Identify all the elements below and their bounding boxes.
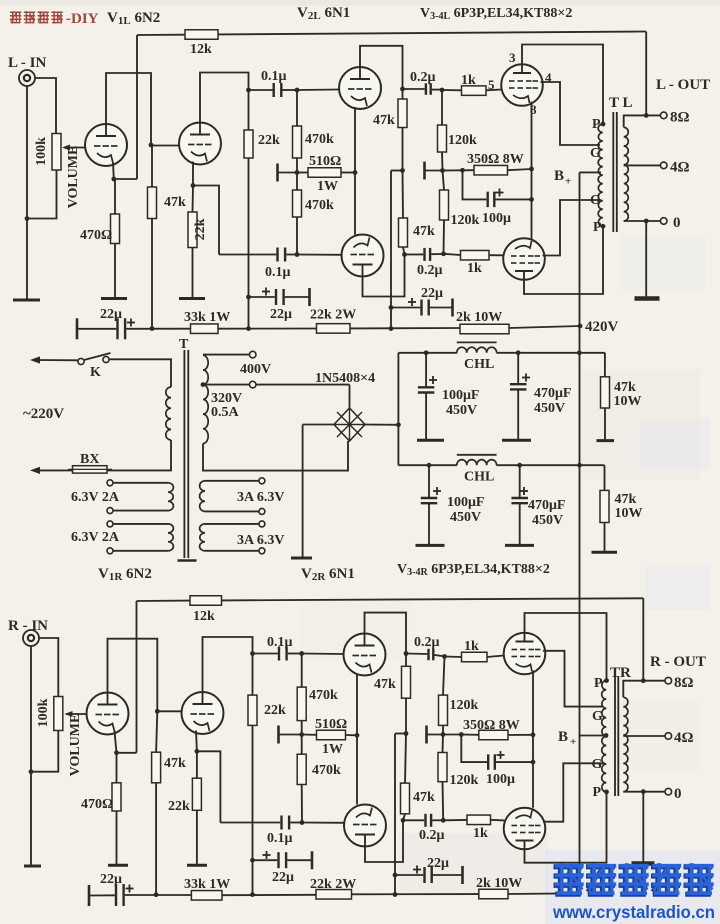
resistor 47k plate lower R bbox=[401, 734, 410, 821]
label 450V top1 bbox=[446, 403, 477, 418]
resistor 22k 2W bbox=[317, 324, 351, 334]
wire V4R screen to G bbox=[543, 763, 604, 821]
wire V1R-a cathode bbox=[115, 731, 117, 753]
svg-text:0.2μ: 0.2μ bbox=[414, 635, 440, 650]
label 3A 6.3V #2 bbox=[237, 533, 284, 548]
junction cathodes top bbox=[529, 167, 534, 172]
label 100uF top bbox=[442, 388, 480, 403]
terminal bar 510 row bbox=[276, 164, 279, 182]
resistor 47k V1R load bbox=[152, 711, 161, 894]
wire bar to 120k mid R bbox=[427, 734, 444, 736]
wire B+ vertical bbox=[579, 172, 581, 894]
wire V1R-a plate riser bbox=[108, 639, 158, 712]
junction feedback 8ohm bbox=[644, 113, 649, 118]
junction 510 node bbox=[295, 170, 300, 175]
capacitor 22u bias R bbox=[395, 866, 463, 884]
label 470k upper R bbox=[309, 688, 338, 703]
svg-text:350Ω 8W: 350Ω 8W bbox=[463, 718, 520, 733]
transformer T secondary 320V bbox=[203, 355, 208, 443]
junction 510 cathode line bbox=[353, 170, 358, 175]
label VOLUME R (rotated) bbox=[68, 714, 83, 777]
transformer TL secondary bbox=[624, 127, 629, 221]
terminal 8ohm bbox=[660, 112, 667, 119]
label TL bbox=[609, 95, 633, 111]
label 22k 2W R bbox=[310, 877, 356, 892]
svg-text:22k: 22k bbox=[258, 133, 280, 148]
svg-text:1N5408×4: 1N5408×4 bbox=[315, 371, 375, 386]
wire B+ center tap R bbox=[580, 735, 605, 737]
svg-text:510Ω: 510Ω bbox=[309, 154, 341, 169]
label 22k 2W bbox=[310, 308, 356, 323]
ground 470ohm R bbox=[108, 864, 128, 867]
svg-text:510Ω: 510Ω bbox=[315, 717, 347, 732]
junction bias 22u bbox=[389, 305, 394, 310]
switch K bbox=[78, 353, 111, 365]
label 0.2u upper R bbox=[414, 635, 440, 650]
tube V1L-a triode bbox=[85, 124, 127, 166]
label R-OUT bbox=[650, 654, 706, 670]
terminal bar 510 row R bbox=[277, 726, 280, 744]
svg-text:V2R 6N1: V2R 6N1 bbox=[301, 566, 355, 583]
junction B+ lower rail bbox=[577, 463, 582, 468]
resistor 470k upper R bbox=[297, 654, 306, 735]
wire V3R screen to G bbox=[543, 651, 604, 707]
label 33k 1W bbox=[184, 310, 230, 325]
wire V1L-b cathode bbox=[192, 162, 194, 186]
junction P bottom bbox=[601, 224, 606, 229]
wire jog to bias line R bbox=[395, 733, 406, 735]
svg-text:6.3V 2A: 6.3V 2A bbox=[71, 530, 120, 545]
resistor 470k lower R bbox=[297, 735, 306, 823]
label 0.1u lower bbox=[265, 265, 291, 280]
svg-text:10W: 10W bbox=[615, 506, 643, 521]
svg-text:P: P bbox=[593, 220, 602, 235]
label 1W R bbox=[322, 742, 343, 757]
label 2k 10W R bbox=[476, 876, 522, 891]
tube V1R-b triode bbox=[182, 692, 224, 734]
tube V4L pentode (inverted) bbox=[503, 238, 545, 280]
svg-text:450V: 450V bbox=[534, 401, 565, 416]
junction 47k rail R bbox=[154, 892, 159, 897]
junction P top R bbox=[604, 678, 609, 683]
wire bridge AC2 bbox=[303, 424, 334, 426]
resistor 1k lower R bbox=[443, 815, 504, 825]
svg-text:100μF: 100μF bbox=[442, 388, 480, 403]
wire filter rail top bbox=[398, 352, 605, 354]
svg-text:120k: 120k bbox=[451, 213, 480, 228]
svg-text:G: G bbox=[590, 146, 601, 161]
capacitor 0.1u upper R bbox=[253, 647, 302, 661]
wire V4R plate to P bbox=[525, 792, 607, 863]
resistor 470k lower bbox=[293, 173, 302, 255]
label 10W top bbox=[614, 394, 642, 409]
rectifier bridge 1N5408x4 bbox=[334, 408, 365, 441]
transformer TR primary bbox=[602, 681, 607, 792]
junction V2L-b plate node bbox=[402, 252, 407, 257]
wire secondary 4ohm bbox=[624, 164, 661, 166]
wire V3L screen to G bbox=[541, 82, 601, 145]
wire secondary 0 R bbox=[623, 791, 665, 793]
junction 47k mid node R bbox=[404, 731, 409, 736]
label 1k upper R bbox=[464, 639, 479, 654]
label 47k lower bbox=[615, 492, 637, 507]
svg-text:400V: 400V bbox=[240, 362, 271, 377]
label 510ohm R bbox=[315, 717, 347, 732]
resistor 2k 10W R bbox=[479, 889, 508, 899]
svg-text:450V: 450V bbox=[446, 403, 477, 418]
transformer TL primary bbox=[598, 124, 603, 226]
svg-text:1k: 1k bbox=[473, 826, 488, 841]
svg-text:8Ω: 8Ω bbox=[670, 110, 690, 126]
plus 470uF top bbox=[522, 374, 530, 382]
junction B+ top rail bbox=[577, 350, 582, 355]
label 22u bias R bbox=[427, 856, 449, 871]
capacitor 0.2u upper R bbox=[406, 649, 445, 661]
label 1k lower bbox=[467, 261, 482, 276]
label 8ohm R bbox=[674, 675, 694, 691]
wire to V2R-a grid bbox=[302, 653, 344, 656]
svg-text:1W: 1W bbox=[322, 742, 343, 757]
wire AC to bridge top bbox=[349, 385, 351, 408]
label 470uF lower bbox=[528, 498, 566, 513]
wire rail to B+ R bbox=[508, 892, 580, 895]
plus 22u R bbox=[263, 851, 271, 859]
tube V2L-b triode (inverted) bbox=[342, 235, 384, 277]
junction 100uF lower bbox=[427, 463, 432, 468]
wire V4L screen to G bbox=[543, 200, 601, 256]
junction 22k bias cap R bbox=[250, 858, 255, 863]
svg-text:22k: 22k bbox=[168, 799, 190, 814]
ground 470ohm bbox=[101, 297, 127, 300]
wire secondary 0 bbox=[624, 220, 661, 222]
svg-text:T: T bbox=[179, 337, 189, 352]
junction 350 left R bbox=[459, 732, 464, 737]
capacitor 100uF 450V lower bbox=[421, 465, 438, 545]
junction V2L-a plate node bbox=[400, 87, 405, 92]
wire V2R cathode line bbox=[356, 674, 358, 805]
wire to V2L-a grid bbox=[297, 89, 339, 92]
label tubes V3-4L 6P3P/EL34/KT88x2 bbox=[420, 6, 572, 22]
capacitor 0.1u upper bbox=[249, 83, 298, 97]
wire rail mid2 bbox=[350, 327, 460, 329]
svg-text:450V: 450V bbox=[450, 510, 481, 525]
resistor 47k plate load lower bbox=[399, 171, 408, 255]
label 0.2u lower R bbox=[419, 828, 445, 843]
pin label 3 bbox=[509, 50, 516, 65]
svg-text:22μ: 22μ bbox=[100, 307, 122, 322]
wire V2L cathode line bbox=[354, 107, 356, 235]
svg-text:L - OUT: L - OUT bbox=[656, 77, 710, 93]
svg-text:0.2μ: 0.2μ bbox=[417, 263, 443, 278]
winding 3A 6.3V #1 bbox=[200, 478, 265, 515]
resistor 22k coupling load R bbox=[248, 654, 257, 895]
label 2k 10W bbox=[456, 310, 502, 325]
label 22u rail bbox=[100, 307, 122, 322]
resistor 1k upper bbox=[442, 86, 502, 96]
label 33k 1W R bbox=[184, 877, 230, 892]
label 120k upper R bbox=[450, 698, 479, 713]
svg-text:450V: 450V bbox=[532, 513, 563, 528]
wire V3L plate to P bbox=[522, 45, 603, 125]
mains arrow bottom bbox=[30, 467, 73, 474]
svg-text:3A 6.3V: 3A 6.3V bbox=[237, 490, 284, 505]
label 0.5A bbox=[211, 405, 240, 420]
junction 120k mid R bbox=[441, 732, 446, 737]
svg-text:+: + bbox=[570, 736, 576, 748]
svg-text:1k: 1k bbox=[467, 261, 482, 276]
wire V3R plate to P bbox=[525, 613, 607, 681]
resistor 350ohm 8W R bbox=[461, 730, 533, 740]
svg-text:100μ: 100μ bbox=[482, 211, 511, 226]
wire V3L cathode drop bbox=[531, 102, 533, 170]
label 4ohm bbox=[670, 160, 690, 176]
svg-text:6.3V 2A: 6.3V 2A bbox=[71, 490, 120, 505]
label 350ohm 8W R bbox=[463, 718, 520, 733]
svg-text:V1R 6N2: V1R 6N2 bbox=[98, 566, 152, 583]
label 47k plate lower bbox=[413, 224, 435, 239]
svg-text:4Ω: 4Ω bbox=[670, 160, 690, 176]
junction 320V tap bbox=[201, 382, 206, 387]
junction 0.2u lower right bbox=[441, 251, 446, 256]
wire B+ center tap bbox=[580, 171, 602, 173]
plus 100uF top bbox=[429, 376, 437, 384]
svg-text:CHL: CHL bbox=[464, 357, 494, 372]
svg-text:1W: 1W bbox=[317, 179, 338, 194]
label 6.3V 2A #2 bbox=[71, 530, 120, 545]
junction P bottom R bbox=[604, 790, 609, 795]
svg-text:-DIY: -DIY bbox=[66, 11, 99, 27]
fuse BX bbox=[68, 466, 112, 473]
svg-text:G: G bbox=[592, 757, 603, 772]
wire cathode link bbox=[531, 169, 533, 240]
svg-text:420V: 420V bbox=[585, 319, 619, 335]
label 47k plate upper R bbox=[374, 677, 396, 692]
label tubes V3-4R 6P3P/EL34/KT88x2 bbox=[397, 562, 550, 578]
resistor 1k lower bbox=[444, 250, 504, 260]
label 47k top bbox=[614, 380, 636, 395]
wire cathode to feedback bbox=[114, 178, 137, 180]
svg-text:120k: 120k bbox=[448, 133, 477, 148]
label P top R bbox=[594, 676, 603, 691]
svg-text:P: P bbox=[592, 117, 601, 132]
label 0 R bbox=[674, 786, 682, 802]
label 120k lower R bbox=[450, 773, 479, 788]
svg-text:33k 1W: 33k 1W bbox=[184, 877, 230, 892]
wire cathode link R bbox=[532, 735, 534, 808]
tube V2R-b triode (inverted) bbox=[344, 805, 386, 847]
capacitor 0.2u lower bbox=[405, 248, 444, 261]
resistor 47k 10W lower bbox=[600, 465, 609, 552]
label 22u bbox=[270, 307, 292, 322]
capacitor 22u bias bbox=[391, 299, 453, 317]
svg-text:12k: 12k bbox=[193, 609, 215, 624]
transformer TR core bbox=[615, 676, 618, 796]
junction coupling node R bbox=[250, 651, 255, 656]
resistor 33k 1W bbox=[191, 324, 219, 334]
wire filter rail lower bbox=[398, 464, 604, 466]
wire cathode to feedback R bbox=[117, 752, 137, 754]
wire 0 to ground R bbox=[642, 792, 644, 862]
junction cathode 22k R bbox=[195, 749, 200, 754]
junction 120k mid bbox=[440, 168, 445, 173]
capacitor 22u rail R bbox=[89, 884, 191, 906]
plus 22u bbox=[262, 288, 270, 296]
wire 12k rail R bbox=[137, 598, 644, 601]
resistor 1k upper R bbox=[445, 652, 504, 662]
junction 0.1u lower node R bbox=[300, 820, 305, 825]
label 0.2u upper bbox=[410, 70, 436, 85]
label tube V1R 6N2 bbox=[98, 566, 152, 583]
wire V1L-a plate riser and jog bbox=[106, 73, 151, 145]
wire feedback from rail R bbox=[642, 598, 644, 680]
svg-text:100μ: 100μ bbox=[486, 772, 515, 787]
plus 22u bias R bbox=[413, 866, 421, 874]
resistor 12k bbox=[185, 30, 218, 40]
wire switch to primary bbox=[109, 359, 171, 387]
capacitor 22u rail bbox=[77, 318, 191, 339]
wire secondary 8ohm bbox=[624, 115, 661, 127]
junction cathode 470ohm R bbox=[114, 750, 119, 755]
label tube V2L 6N1 bbox=[297, 5, 350, 22]
wire pot bottom R bbox=[31, 731, 58, 772]
plus 22u bias bbox=[408, 298, 416, 306]
svg-text:22k: 22k bbox=[193, 218, 208, 240]
junction 0 ground bbox=[644, 219, 649, 224]
label 22u bias bbox=[421, 286, 443, 301]
svg-text:CHL: CHL bbox=[464, 470, 494, 485]
svg-text:22μ: 22μ bbox=[100, 872, 122, 887]
svg-text:0: 0 bbox=[673, 215, 681, 231]
capacitor 0.2u lower R bbox=[403, 814, 443, 827]
junction bias 22u R bbox=[393, 873, 398, 878]
wire to V2R-b grid bbox=[302, 822, 344, 824]
label 470ohm R bbox=[81, 797, 113, 812]
svg-text:22μ: 22μ bbox=[272, 870, 294, 885]
wire V4L plate to P bbox=[524, 226, 603, 294]
label 350ohm 8W bbox=[467, 152, 524, 167]
junction center tap R bbox=[604, 733, 609, 738]
wire V2R-a plate riser bbox=[365, 613, 407, 654]
svg-text:B: B bbox=[554, 168, 564, 184]
svg-text:22μ: 22μ bbox=[270, 307, 292, 322]
terminal bar rail left end R bbox=[88, 885, 91, 906]
capacitor 100u bbox=[463, 170, 532, 207]
ground input jack bbox=[13, 299, 40, 302]
label 1N5408x4 bbox=[315, 371, 375, 386]
svg-text:0.5A: 0.5A bbox=[211, 405, 240, 420]
svg-text:470k: 470k bbox=[312, 763, 341, 778]
junction 470uF top bbox=[516, 350, 521, 355]
ground output L bbox=[635, 296, 660, 301]
label 1k lower R bbox=[473, 826, 488, 841]
wire cathode jog to 0.1u lower bbox=[193, 186, 219, 255]
svg-text:47k: 47k bbox=[615, 492, 637, 507]
tube V2L-a triode bbox=[339, 67, 381, 109]
svg-text:470μF: 470μF bbox=[528, 498, 566, 513]
wire grid V1L-b bbox=[151, 145, 180, 147]
svg-text:470Ω: 470Ω bbox=[80, 228, 112, 243]
label 22k R coupling bbox=[264, 703, 286, 718]
ground 470uF lower bbox=[505, 544, 534, 547]
svg-text:100k: 100k bbox=[36, 698, 51, 727]
junction P top bbox=[601, 122, 606, 127]
pin label 4 bbox=[545, 70, 552, 85]
svg-text:0.1μ: 0.1μ bbox=[267, 635, 293, 650]
svg-text:0.1μ: 0.1μ bbox=[261, 69, 287, 84]
svg-text:2k 10W: 2k 10W bbox=[456, 310, 502, 325]
svg-text:47k: 47k bbox=[373, 113, 395, 128]
wire 120k mid to 350 bbox=[443, 169, 463, 171]
junction 470k top bbox=[295, 88, 300, 93]
plus 100u bbox=[496, 189, 504, 197]
potentiometer 100k VOLUME bbox=[52, 134, 88, 171]
wire grid V1R-b bbox=[157, 710, 181, 712]
resistor 120k lower R bbox=[438, 735, 447, 821]
svg-text:VOLUME: VOLUME bbox=[68, 714, 83, 777]
resistor 350ohm 8W bbox=[463, 165, 532, 175]
wire 12k top rail bbox=[137, 32, 646, 36]
resistor 12k R bbox=[190, 596, 222, 606]
ground 100uF lower bbox=[416, 544, 445, 547]
terminal 400V bbox=[249, 351, 256, 358]
wire V2L-a plate riser bbox=[360, 46, 403, 89]
label 120k lower bbox=[451, 213, 480, 228]
svg-text:47k: 47k bbox=[413, 224, 435, 239]
plus 470uF lower bbox=[520, 487, 528, 495]
resistor 22k 2W R bbox=[316, 890, 352, 900]
junction 22k rail R bbox=[250, 892, 255, 897]
junction coupling node bbox=[246, 88, 251, 93]
wire cathode jog R bbox=[197, 751, 221, 822]
terminal bar 350 row R bbox=[425, 726, 428, 744]
wire rail mid R bbox=[222, 894, 316, 896]
wire jack ground drop R bbox=[30, 646, 32, 865]
label K bbox=[90, 365, 101, 380]
label 120k upper bbox=[448, 133, 477, 148]
resistor 510ohm 1W R bbox=[302, 730, 357, 740]
label CHL top bbox=[464, 357, 494, 372]
wire coil bottom to bridge minus bbox=[203, 441, 348, 471]
label B+ bottom bbox=[558, 729, 576, 748]
label G top bbox=[590, 146, 601, 161]
junction 100uF top bbox=[424, 350, 429, 355]
terminal L-IN jack bbox=[19, 70, 35, 86]
svg-text:L - IN: L - IN bbox=[8, 55, 47, 71]
svg-text:47k: 47k bbox=[164, 195, 186, 210]
svg-text:350Ω 8W: 350Ω 8W bbox=[467, 152, 524, 167]
junction feedback 8ohm R bbox=[641, 678, 646, 683]
junction bias rail R bbox=[393, 892, 398, 897]
ground 22k R bbox=[187, 864, 207, 867]
terminal L-IN label bbox=[8, 55, 47, 71]
wire plus riser bbox=[396, 353, 401, 465]
terminal bar rail left end bbox=[76, 318, 79, 339]
label G top R bbox=[592, 709, 603, 724]
junction 0.2u lower right R bbox=[441, 818, 446, 823]
label B+ top bbox=[554, 168, 571, 188]
label BX bbox=[80, 452, 99, 467]
resistor 120k lower bbox=[440, 171, 449, 254]
svg-text:VOLUME: VOLUME bbox=[66, 146, 81, 209]
svg-text:+: + bbox=[565, 176, 571, 188]
svg-text:22k: 22k bbox=[264, 703, 286, 718]
label tube V1L 6N2 bbox=[107, 10, 160, 27]
tube V2R-a triode bbox=[344, 634, 386, 676]
wire bar to 510 node R bbox=[279, 734, 302, 736]
svg-text:10W: 10W bbox=[614, 394, 642, 409]
capacitor 100u R bbox=[461, 735, 533, 770]
capacitor 22u coupling-bias R bbox=[253, 851, 313, 869]
